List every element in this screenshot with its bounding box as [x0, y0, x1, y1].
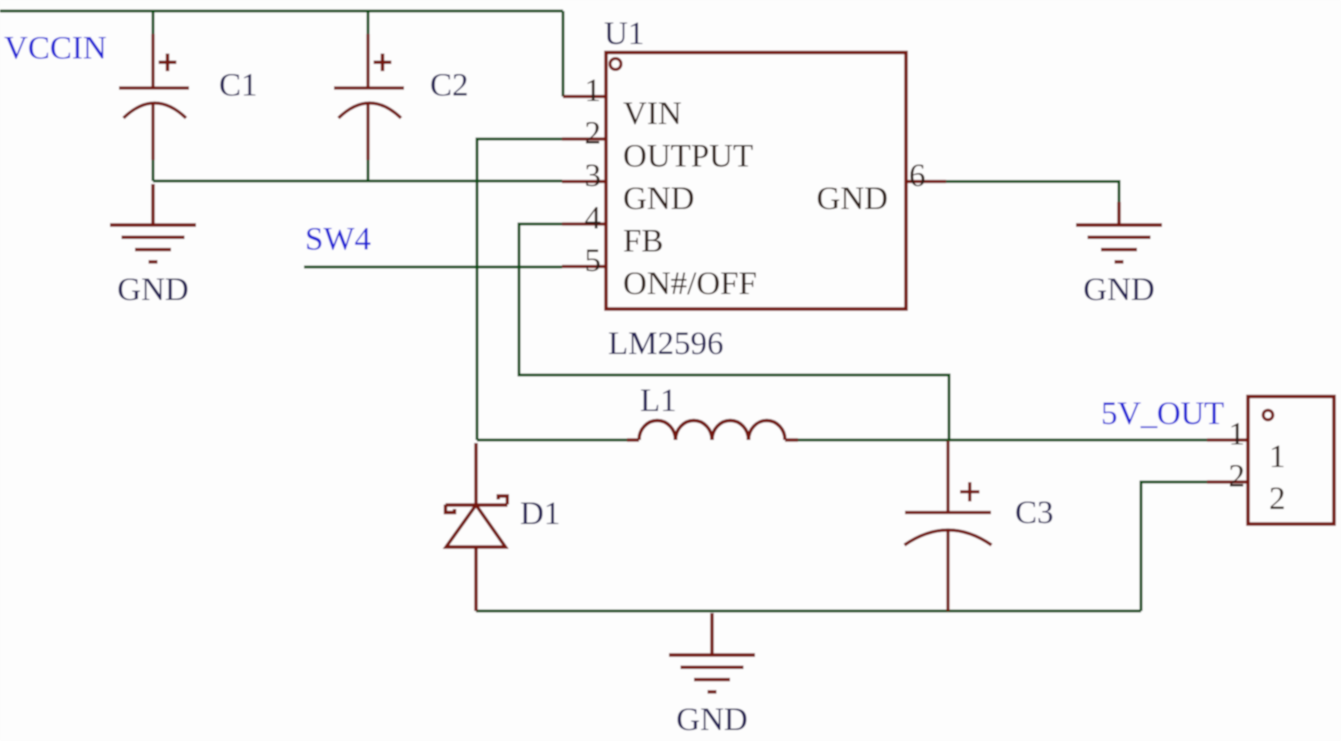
svg-text:VCCIN: VCCIN	[4, 31, 107, 67]
pin 4 FB stub	[562, 222, 606, 225]
svg-text:1: 1	[1269, 439, 1286, 475]
svg-text:3: 3	[585, 158, 602, 194]
svg-text:6: 6	[909, 158, 926, 194]
wire FB route pin 4	[519, 224, 949, 440]
svg-text:C2: C2	[430, 68, 469, 104]
connector indicator circle	[1263, 410, 1273, 420]
svg-text:SW4: SW4	[305, 222, 371, 258]
wire output node horizontal to L1	[477, 439, 627, 442]
wire C1 top drop	[152, 11, 155, 34]
wire vertical from top net to pin 1	[562, 11, 565, 97]
svg-text:2: 2	[585, 116, 602, 152]
inductor L1	[627, 421, 798, 441]
connector J1 box	[1248, 397, 1334, 525]
wire pin 6 to right GND	[946, 182, 1119, 205]
svg-text:VIN: VIN	[623, 96, 682, 132]
svg-text:FB: FB	[623, 224, 663, 260]
svg-text:GND: GND	[817, 181, 889, 217]
wire top horizontal VCCIN net	[0, 10, 563, 13]
wire C2 top drop	[367, 11, 370, 34]
svg-text:ON#/OFF: ON#/OFF	[623, 266, 757, 302]
wire bottom ground rail	[476, 610, 1141, 613]
pin 3 GND stub	[562, 180, 606, 183]
wire mid horizontal GND net to pin 3	[153, 160, 562, 181]
svg-text:U1: U1	[604, 16, 644, 52]
svg-text:1: 1	[585, 73, 602, 109]
U1 pin-1 indicator circle	[610, 59, 621, 70]
connector pin 2 stub	[1207, 480, 1248, 483]
ground symbol left GND	[110, 184, 196, 262]
svg-text:LM2596: LM2596	[608, 326, 724, 362]
svg-text:GND: GND	[676, 702, 748, 738]
connector pin 1 stub	[1207, 438, 1248, 441]
svg-text:4: 4	[585, 201, 602, 237]
diode D1 (schottky)	[446, 443, 508, 611]
svg-text:GND: GND	[117, 272, 189, 308]
svg-text:2: 2	[1269, 481, 1286, 517]
capacitor C1	[119, 34, 189, 160]
svg-text:L1: L1	[640, 383, 677, 419]
wire L1 to connector pin 1	[798, 439, 1207, 442]
pin 2 OUTPUT stub	[562, 137, 606, 140]
capacitor C2	[334, 34, 404, 160]
svg-text:GND: GND	[1083, 272, 1155, 308]
svg-text:1: 1	[1229, 417, 1246, 453]
ground symbol right GND	[1076, 202, 1162, 262]
svg-text:D1: D1	[520, 496, 560, 532]
wire SW4 net to pin 5	[304, 266, 562, 269]
pin 6 GND stub right	[906, 180, 946, 183]
capacitor C3	[905, 441, 992, 611]
IC U1 LM2596 box	[606, 53, 906, 310]
svg-text:5V_OUT: 5V_OUT	[1101, 396, 1224, 432]
ground symbol bottom GND	[669, 613, 755, 692]
svg-text:2: 2	[1229, 459, 1246, 495]
pin 1 VIN stub	[563, 95, 606, 98]
svg-text:C1: C1	[219, 68, 258, 104]
svg-text:OUTPUT: OUTPUT	[623, 139, 753, 175]
pin 5 ON#/OFF stub	[562, 265, 606, 268]
svg-text:GND: GND	[623, 181, 695, 217]
wire pin 2 OUTPUT to switch node vertical	[477, 139, 562, 440]
svg-text:5: 5	[585, 243, 602, 279]
wire connector pin 2 down to ground rail	[1141, 482, 1207, 611]
svg-text:C3: C3	[1015, 495, 1054, 531]
